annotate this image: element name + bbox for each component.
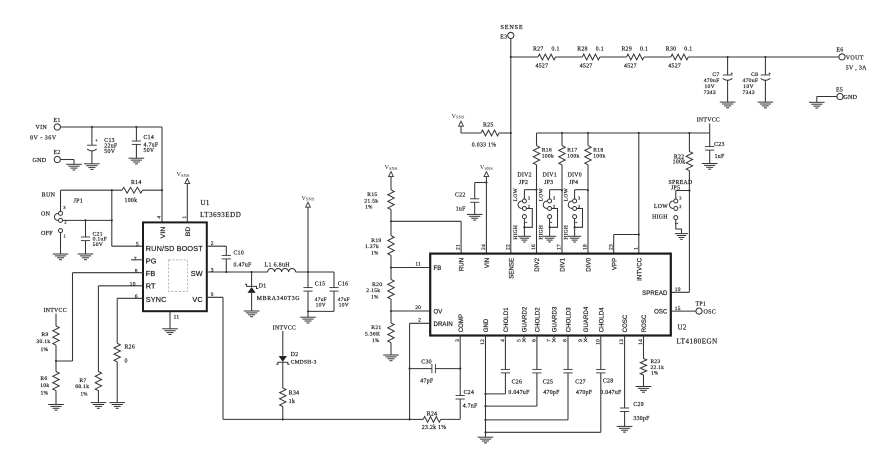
ground JP1 — [53, 254, 69, 260]
capacitor C10 — [222, 251, 252, 273]
svg-text:GUARD4: GUARD4 — [584, 306, 590, 332]
svg-text:68.1k: 68.1k — [75, 384, 89, 390]
svg-text:CHOLD1: CHOLD1 — [504, 307, 510, 333]
capacitor C16 — [329, 272, 349, 311]
svg-text:R34: R34 — [289, 391, 300, 397]
svg-text:1%: 1% — [81, 392, 88, 397]
junction COMP/C30 — [459, 368, 461, 370]
svg-text:CMDSH-3: CMDSH-3 — [291, 360, 317, 366]
svg-text:U1: U1 — [201, 199, 210, 207]
svg-text:L1 6.8uH: L1 6.8uH — [265, 262, 291, 268]
svg-text:R21: R21 — [371, 325, 381, 331]
svg-text:R7: R7 — [79, 378, 86, 384]
svg-text:50V: 50V — [144, 148, 155, 154]
svg-text:SPREAD: SPREAD — [642, 291, 668, 297]
junction gnd2 — [484, 405, 486, 407]
capacitor C23 — [705, 133, 725, 163]
svg-text:E2: E2 — [54, 150, 61, 156]
svg-text:R19: R19 — [371, 238, 381, 244]
svg-text:DIV2: DIV2 — [517, 172, 531, 178]
svg-text:5V , 3A: 5V , 3A — [846, 66, 868, 72]
svg-text:22.1k: 22.1k — [651, 365, 665, 371]
resistor R19 — [365, 221, 394, 267]
resistor R28 — [556, 46, 604, 69]
resistor R27 — [511, 46, 560, 69]
wire COMP pin3 — [459, 336, 461, 396]
svg-text:2.15k: 2.15k — [366, 288, 380, 294]
wire VC pin9 — [207, 297, 223, 419]
resistor R18 — [585, 133, 606, 254]
svg-text:RUN/SD: RUN/SD — [146, 244, 175, 253]
svg-text:30.1k: 30.1k — [36, 339, 50, 345]
svg-text:9: 9 — [578, 339, 584, 342]
junction C15 gnd — [307, 310, 309, 312]
svg-text:CHOLD4: CHOLD4 — [599, 307, 605, 333]
svg-text:DIV0: DIV0 — [568, 172, 582, 178]
svg-text:100k: 100k — [125, 198, 138, 204]
svg-text:7343: 7343 — [742, 90, 754, 96]
svg-text:4527: 4527 — [624, 63, 637, 69]
svg-text:LT3693EDD: LT3693EDD — [200, 211, 241, 219]
svg-text:1: 1 — [573, 221, 578, 224]
svg-text:R14: R14 — [131, 180, 142, 186]
no-connect GUARD2 — [522, 336, 526, 343]
wire RUN pin21 — [391, 221, 461, 253]
wire R14 to VIN — [143, 189, 163, 191]
resistor R29 — [600, 46, 648, 69]
svg-text:R26: R26 — [125, 344, 136, 350]
jumper JP5 SPREAD — [652, 180, 692, 234]
svg-text:R29: R29 — [622, 46, 633, 52]
svg-text:DIV1: DIV1 — [561, 257, 567, 271]
ground C13 — [84, 164, 100, 170]
node INTVCC label — [697, 118, 720, 134]
jumper JP2 DIV2 — [513, 172, 536, 239]
svg-text:ON: ON — [41, 212, 51, 218]
capacitor C8 — [742, 57, 771, 102]
wire INTVCC pin1 — [638, 133, 640, 254]
svg-text:4: 4 — [157, 216, 163, 219]
ground C14 — [129, 158, 145, 164]
svg-text:JP4: JP4 — [569, 180, 578, 186]
terminal E1 VIN — [30, 118, 61, 142]
resistor R14 — [122, 180, 143, 204]
svg-text:C14: C14 — [144, 135, 155, 141]
svg-text:23.2k 1%: 23.2k 1% — [422, 425, 447, 431]
U2 top pin names — [460, 257, 644, 281]
node INTVCC at R9 — [44, 308, 67, 326]
junction FB tap — [390, 266, 392, 268]
wire JP1 pin2 — [63, 219, 112, 221]
junction gnd1 — [484, 393, 486, 395]
svg-text:SW: SW — [191, 269, 203, 278]
svg-text:R30: R30 — [666, 46, 677, 52]
svg-text:3: 3 — [63, 205, 66, 210]
junction SENSE/R25 — [510, 132, 512, 134]
resistor R30 — [644, 46, 692, 69]
wire E5 to ground — [817, 97, 837, 103]
svg-text:5: 5 — [136, 241, 139, 247]
resistor R9 — [36, 326, 59, 361]
wire L1 to output node — [296, 271, 334, 273]
svg-text:1%: 1% — [40, 347, 48, 353]
svg-text:0.1: 0.1 — [640, 46, 648, 52]
wire INTVCC rail — [537, 132, 710, 134]
svg-text:INTVCC: INTVCC — [273, 326, 296, 332]
resistor R22 — [673, 133, 693, 191]
svg-text:LOW: LOW — [513, 187, 519, 201]
junction RUN vert — [111, 189, 113, 191]
svg-text:CHOLD3: CHOLD3 — [567, 307, 573, 333]
junction SENSE/rail — [510, 56, 512, 58]
inductor L1 — [265, 262, 296, 272]
jumper JP4 DIV0 — [563, 172, 588, 239]
svg-text:4527: 4527 — [668, 63, 681, 69]
svg-text:E3: E3 — [500, 35, 507, 41]
no-connect GUARD3 — [552, 336, 556, 343]
svg-text:7343: 7343 — [704, 90, 716, 96]
label RUN — [42, 192, 56, 198]
svg-text:TP1: TP1 — [696, 301, 707, 307]
resistor R17 — [559, 133, 580, 254]
ground C8 — [758, 102, 774, 108]
resistor R6 — [40, 361, 59, 404]
svg-text:HIGH: HIGH — [563, 225, 569, 240]
U1 pin numbers — [130, 216, 214, 321]
svg-text:RUN: RUN — [460, 258, 466, 271]
resistor R15 — [364, 190, 394, 222]
ground R6 — [48, 405, 64, 411]
svg-text:PG: PG — [146, 257, 157, 266]
junction RUN tap — [390, 220, 392, 222]
ground R26 — [109, 403, 125, 409]
svg-text:DIV2: DIV2 — [535, 257, 541, 271]
junction DRAIN/rail — [409, 418, 411, 420]
svg-text:R6: R6 — [40, 376, 47, 382]
svg-text:20: 20 — [415, 305, 421, 311]
terminal E3 SENSE — [500, 24, 523, 41]
junction DRAIN/C30 — [409, 368, 411, 370]
jumper JP3 DIV1 — [538, 172, 562, 239]
svg-text:+: + — [768, 70, 771, 75]
junction VIN/C13 — [91, 126, 93, 128]
junction VIN/C14 — [135, 126, 137, 128]
svg-text:VIN: VIN — [160, 227, 167, 239]
ground R23 — [636, 387, 652, 393]
svg-text:50V: 50V — [104, 149, 115, 155]
node Vsns at R15 — [385, 164, 398, 190]
svg-text:VIN: VIN — [485, 258, 491, 268]
svg-text:OFF: OFF — [41, 231, 53, 237]
svg-text:21: 21 — [456, 244, 462, 250]
svg-text:1%: 1% — [371, 251, 378, 256]
svg-text:R27: R27 — [533, 46, 544, 52]
junction D1 — [251, 271, 253, 273]
ground R21 — [383, 355, 399, 361]
wire SYNC pin6 — [117, 298, 143, 343]
svg-text:R9: R9 — [41, 332, 48, 338]
svg-text:BOOST: BOOST — [177, 244, 204, 253]
ground C23 — [702, 164, 718, 170]
capacitor C27 — [486, 336, 593, 420]
junction VPP/INTVCC — [638, 233, 640, 235]
junction OV tap — [390, 310, 392, 312]
junction JP3 — [561, 189, 563, 191]
svg-text:R24: R24 — [427, 411, 438, 417]
ground JP5 — [675, 234, 688, 240]
junction JP5 — [688, 189, 690, 191]
resistor R23 — [640, 336, 664, 387]
svg-text:HIGH: HIGH — [513, 225, 519, 240]
svg-text:0.47uF: 0.47uF — [234, 263, 253, 269]
resistor R24 — [410, 411, 461, 431]
wire FB pin8 — [56, 273, 143, 361]
svg-text:E5: E5 — [836, 87, 843, 93]
junction output node — [307, 271, 309, 273]
svg-text:OSC: OSC — [654, 310, 668, 316]
svg-text:10V: 10V — [339, 303, 349, 309]
U1 pin7 PG stub — [131, 259, 143, 261]
svg-text:11: 11 — [415, 261, 421, 267]
diode D2 CMDSH-3 — [276, 352, 316, 388]
resistor R34 — [280, 388, 300, 419]
capacitor C7 — [704, 57, 734, 102]
svg-text:1uF: 1uF — [456, 206, 466, 212]
svg-text:OV: OV — [434, 309, 443, 315]
svg-text:7: 7 — [547, 339, 553, 342]
svg-text:R20: R20 — [372, 282, 382, 288]
svg-text:100k: 100k — [673, 159, 686, 165]
svg-text:0.1: 0.1 — [552, 46, 560, 52]
ground JP2 — [518, 236, 531, 242]
svg-text:1uF: 1uF — [715, 154, 725, 160]
svg-text:50V: 50V — [93, 242, 104, 248]
wire RUN to RUN/SD — [111, 190, 113, 246]
U1 pin names — [146, 227, 203, 304]
wire DRAIN pin2 — [410, 323, 431, 419]
junction D2 branch — [282, 418, 284, 420]
U2 side pin names — [434, 266, 669, 328]
svg-text:100k: 100k — [542, 153, 554, 159]
svg-text:VSNS: VSNS — [452, 113, 465, 120]
svg-text:1: 1 — [64, 234, 67, 239]
svg-text:C16: C16 — [338, 281, 349, 287]
svg-text:JP3: JP3 — [544, 180, 553, 186]
svg-text:47pF: 47pF — [420, 379, 434, 385]
wire rail to VOUT — [688, 56, 839, 58]
junction gnd3 — [484, 419, 486, 421]
junction C7 — [727, 56, 729, 58]
svg-text:24: 24 — [481, 244, 487, 250]
ground E5 — [809, 102, 825, 108]
node Vsns at U2 VIN — [480, 164, 493, 253]
svg-text:VSNS: VSNS — [385, 164, 398, 171]
svg-text:CHOLD2: CHOLD2 — [536, 307, 542, 333]
wire VC rail — [223, 418, 410, 420]
wire RUN/SD pin5 — [112, 245, 143, 247]
svg-text:1%: 1% — [371, 295, 378, 300]
svg-text:10V: 10V — [316, 303, 326, 309]
svg-text:470pF: 470pF — [543, 390, 560, 396]
svg-text:GND: GND — [484, 318, 490, 332]
svg-text:0.033 1%: 0.033 1% — [472, 142, 497, 148]
svg-text:0.047uF: 0.047uF — [508, 390, 530, 396]
svg-text:D2: D2 — [291, 352, 299, 358]
svg-text:GND: GND — [33, 158, 47, 164]
wire E2 to ground — [60, 160, 74, 165]
svg-text:2: 2 — [679, 204, 682, 209]
svg-text:1%: 1% — [372, 339, 379, 344]
svg-text:LOW: LOW — [563, 187, 569, 201]
resistor R21 — [365, 311, 394, 355]
svg-text:SENSE: SENSE — [501, 24, 524, 31]
capacitor C22 — [455, 183, 486, 215]
svg-text:R25: R25 — [483, 123, 494, 129]
node Vsns at R25 — [452, 113, 465, 133]
svg-text:+: + — [95, 137, 98, 142]
svg-text:3: 3 — [211, 268, 214, 274]
svg-text:4527: 4527 — [536, 63, 549, 69]
svg-text:23: 23 — [608, 244, 614, 250]
wire C16 bottom — [308, 310, 334, 312]
no-connect GUARD4 — [584, 336, 588, 343]
junction R17 top — [561, 132, 563, 134]
svg-text:1%: 1% — [365, 206, 372, 211]
junction JP2 — [535, 189, 537, 191]
junction C22 — [485, 181, 487, 183]
svg-text:0.047uF: 0.047uF — [600, 390, 622, 396]
svg-text:INTVCC: INTVCC — [44, 308, 67, 314]
svg-text:ROSC: ROSC — [642, 314, 648, 332]
capacitor C14 — [132, 127, 159, 158]
node Vsns at BD pin1 — [177, 171, 190, 222]
svg-text:21.5k: 21.5k — [364, 198, 378, 204]
svg-text:0.1: 0.1 — [596, 46, 604, 52]
resistor R7 — [75, 372, 101, 403]
svg-text:VPP: VPP — [612, 258, 618, 270]
svg-text:LOW: LOW — [538, 187, 544, 201]
junction R18 top — [587, 132, 589, 134]
wire OSC pin15 — [671, 310, 696, 312]
capacitor C25 — [486, 336, 561, 407]
svg-text:11: 11 — [174, 314, 180, 320]
svg-text:R15: R15 — [367, 192, 377, 198]
svg-text:0: 0 — [125, 358, 128, 364]
resistor R20 — [366, 268, 394, 312]
svg-text:19: 19 — [675, 287, 681, 293]
ground C21 — [78, 254, 94, 260]
svg-text:C25: C25 — [543, 379, 554, 385]
svg-text:LT4180EGN: LT4180EGN — [677, 338, 718, 346]
svg-text:10k: 10k — [40, 383, 49, 389]
svg-text:LOW: LOW — [654, 204, 668, 210]
capacitor C21 — [81, 220, 107, 253]
svg-text:COMP: COMP — [459, 314, 465, 332]
resistor R26 — [114, 343, 135, 402]
svg-text:C22: C22 — [455, 192, 466, 198]
svg-text:17: 17 — [557, 244, 563, 250]
svg-text:INTVCC: INTVCC — [697, 118, 720, 124]
ground U1 pin11 — [162, 329, 178, 335]
svg-text:GND: GND — [843, 95, 857, 101]
capacitor C13 — [87, 127, 118, 164]
svg-text:18: 18 — [583, 244, 589, 250]
svg-text:BD: BD — [185, 227, 192, 237]
svg-text:C30: C30 — [421, 360, 432, 366]
op-amp U2 LT4180EGN box — [430, 254, 718, 346]
svg-text:8: 8 — [135, 268, 138, 274]
junction C8 — [764, 56, 766, 58]
svg-text:6: 6 — [135, 294, 138, 300]
svg-text:DIV1: DIV1 — [543, 172, 557, 178]
svg-text:VSNS: VSNS — [480, 164, 493, 171]
svg-text:DIV0: DIV0 — [587, 257, 593, 271]
junction pin2/vert — [111, 219, 113, 221]
svg-text:470pF: 470pF — [576, 390, 593, 396]
capacitor C28 — [486, 336, 623, 433]
terminal E2 GND — [33, 150, 61, 164]
svg-text:5: 5 — [517, 339, 523, 342]
ground JP3 — [543, 236, 556, 242]
svg-text:C27: C27 — [575, 379, 586, 385]
svg-text:D1: D1 — [259, 283, 267, 289]
junction C21 — [84, 219, 86, 221]
svg-text:22: 22 — [505, 244, 511, 250]
wire OV pin20 U2 — [391, 310, 430, 312]
wire VIN drop to U1 — [161, 127, 163, 222]
svg-text:COSC: COSC — [623, 314, 629, 332]
resistor R16 — [533, 133, 554, 254]
wire RT pin10 — [98, 286, 143, 372]
svg-text:1: 1 — [523, 221, 528, 224]
ground C7 — [720, 102, 736, 108]
svg-text:0.1: 0.1 — [684, 46, 692, 52]
ground C22 — [467, 214, 483, 220]
svg-text:GUARD3: GUARD3 — [553, 306, 559, 332]
svg-text:OSC: OSC — [704, 310, 717, 316]
capacitor C30 — [410, 360, 461, 385]
junction R9/R6 — [55, 360, 57, 362]
jumper JP1 — [41, 190, 83, 254]
svg-text:C24: C24 — [464, 390, 475, 396]
svg-text:VSNS: VSNS — [302, 195, 315, 202]
svg-text:C15: C15 — [315, 281, 326, 287]
svg-text:330pF: 330pF — [633, 416, 650, 422]
svg-text:RT: RT — [146, 282, 156, 291]
svg-text:+: + — [731, 70, 734, 75]
svg-text:JP1: JP1 — [74, 199, 84, 205]
U2 bottom pin names — [459, 306, 648, 332]
svg-text:VSNS: VSNS — [177, 171, 190, 178]
svg-text:1%: 1% — [651, 372, 658, 377]
wire SW pin3 — [207, 271, 268, 273]
U2 bottom pin numbers — [455, 339, 644, 345]
svg-text:2: 2 — [418, 317, 421, 323]
wire BOOST pin2 — [207, 246, 227, 255]
node Vsns output — [302, 195, 315, 272]
svg-text:MBRA340T3G: MBRA340T3G — [257, 296, 300, 302]
wire RUN — [61, 189, 123, 191]
svg-text:FB: FB — [434, 266, 442, 272]
wire SENSE column — [510, 39, 512, 254]
svg-text:C26: C26 — [512, 379, 523, 385]
svg-text:8V - 36V: 8V - 36V — [30, 136, 57, 142]
svg-text:DRAIN: DRAIN — [434, 322, 453, 328]
U2 top pin numbers — [456, 244, 640, 250]
wire SPREAD pin19 — [671, 191, 690, 293]
U2 side pin numbers — [415, 261, 681, 323]
svg-text:R28: R28 — [577, 46, 588, 52]
